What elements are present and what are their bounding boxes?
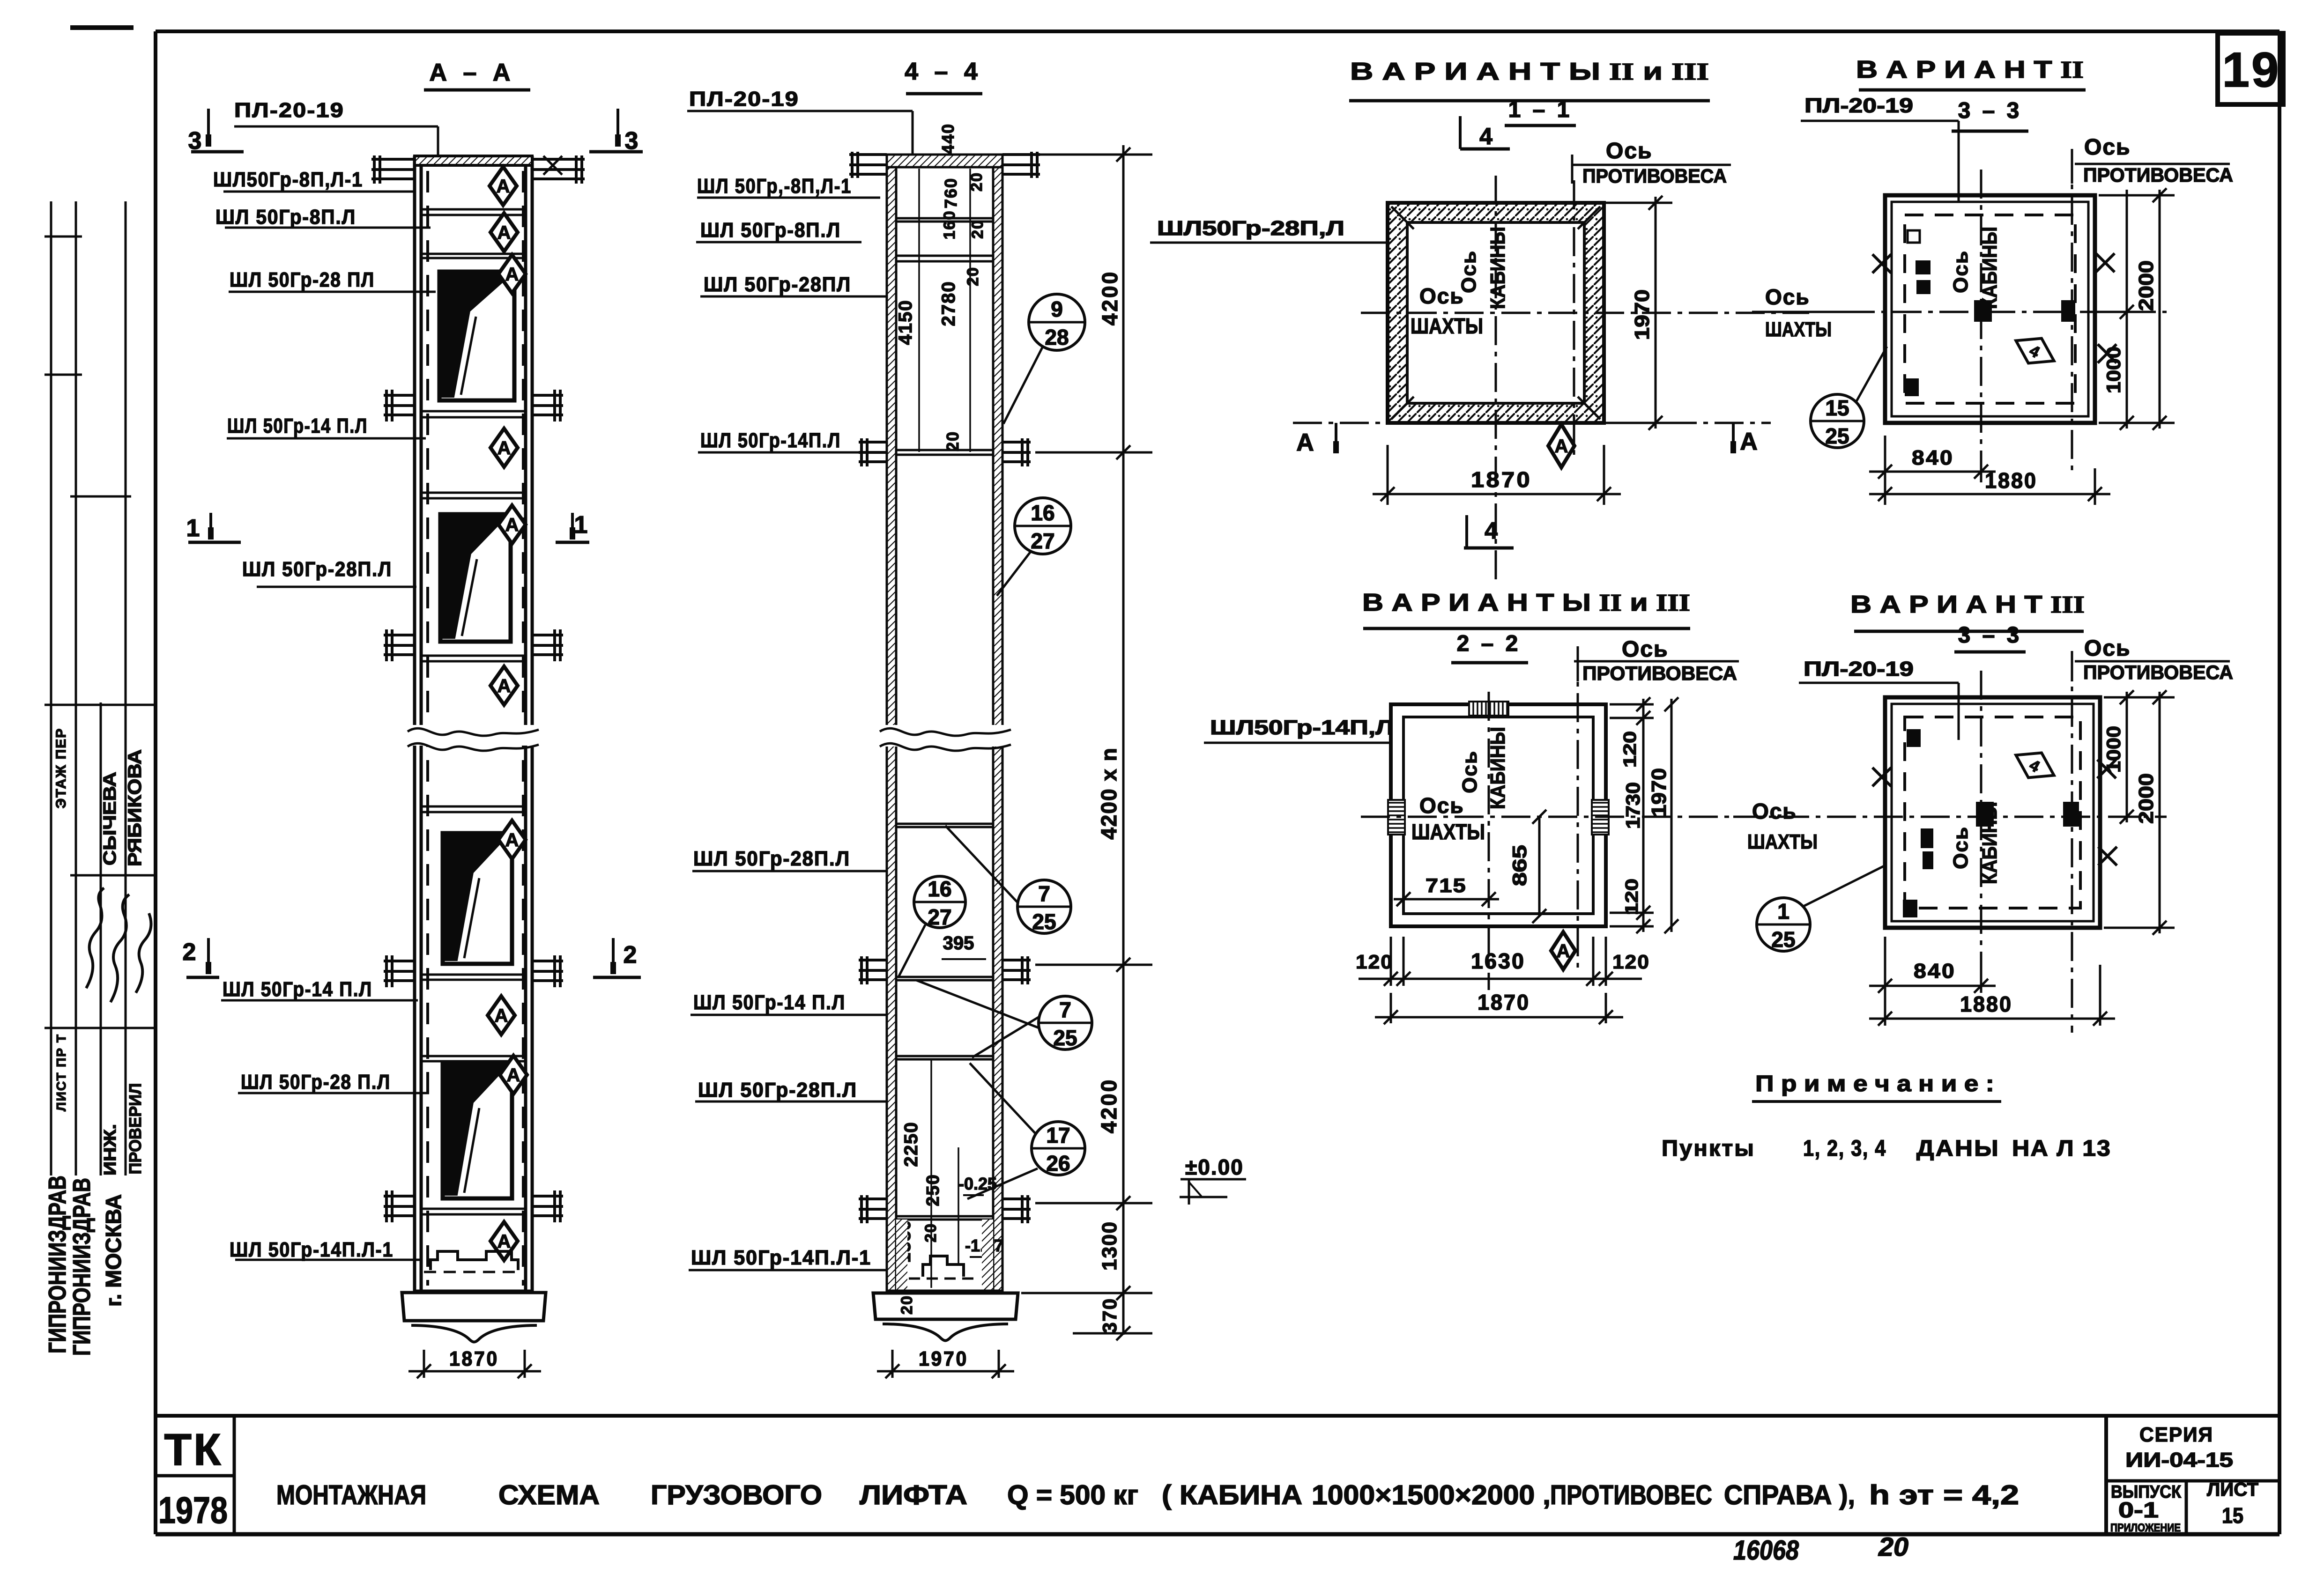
svg-text:4200: 4200 <box>1097 1078 1121 1133</box>
svg-text:А: А <box>497 1231 511 1252</box>
svg-text:ШЛ50Гр-14П,Л: ШЛ50Гр-14П,Л <box>1210 716 1394 739</box>
svg-text:1870: 1870 <box>1471 467 1532 492</box>
svg-text:Ось: Ось <box>1606 139 1653 163</box>
svg-text:±0.00: ±0.00 <box>1185 1155 1244 1179</box>
svg-text:1, 2, 3, 4: 1, 2, 3, 4 <box>1803 1136 1886 1161</box>
svg-text:ШЛ 50Гр-14П.Л-1: ШЛ 50Гр-14П.Л-1 <box>691 1246 871 1269</box>
svg-text:2250: 2250 <box>901 1122 921 1167</box>
svg-text:ГИПРОНИИЗДРАВ: ГИПРОНИИЗДРАВ <box>68 1178 96 1356</box>
svg-text:СЫЧЕВА: СЫЧЕВА <box>100 772 120 865</box>
svg-text:А: А <box>497 222 511 243</box>
svg-text:1: 1 <box>186 515 200 542</box>
svg-text:2: 2 <box>624 941 637 968</box>
svg-text:ШАХТЫ: ШАХТЫ <box>1747 830 1818 853</box>
svg-text:120: 120 <box>1612 951 1650 973</box>
svg-text:25: 25 <box>1032 909 1056 934</box>
svg-text:СЕРИЯ: СЕРИЯ <box>2139 1423 2213 1446</box>
svg-text:3: 3 <box>188 127 202 155</box>
svg-text:250: 250 <box>923 1174 943 1206</box>
svg-text:1300: 1300 <box>1098 1221 1121 1271</box>
svg-text:20: 20 <box>964 266 982 286</box>
svg-text:440: 440 <box>938 123 958 154</box>
svg-text:Ось: Ось <box>1949 826 1972 869</box>
svg-text:СПРАВА ),: СПРАВА ), <box>1724 1480 1855 1510</box>
svg-text:А: А <box>505 830 519 850</box>
svg-text:КАБИНЫ: КАБИНЫ <box>1486 727 1509 809</box>
svg-text:h эт = 4,2: h эт = 4,2 <box>1869 1480 2019 1510</box>
svg-text:Ось: Ось <box>1457 250 1480 293</box>
svg-text:ШЛ50Гр-28П,Л: ШЛ50Гр-28П,Л <box>1157 217 1344 240</box>
svg-text:В А Р И А Н Т III: В А Р И А Н Т III <box>1850 591 2085 618</box>
svg-text:ШАХТЫ: ШАХТЫ <box>1765 318 1832 341</box>
svg-text:А: А <box>1296 429 1314 456</box>
svg-text:120: 120 <box>1356 951 1393 973</box>
svg-text:ДАНЫ: ДАНЫ <box>1916 1136 2000 1161</box>
svg-text:ШЛ 50Гр-28 П.Л: ШЛ 50Гр-28 П.Л <box>241 1071 391 1094</box>
svg-text:1000×1500×2000 ,: 1000×1500×2000 , <box>1312 1480 1551 1510</box>
svg-text:2000: 2000 <box>2135 773 2158 824</box>
svg-text:120: 120 <box>1622 879 1642 915</box>
svg-text:1000: 1000 <box>2102 726 2124 773</box>
svg-text:19: 19 <box>2222 43 2281 97</box>
svg-text:Ось: Ось <box>1949 250 1972 293</box>
svg-text:1630: 1630 <box>1471 949 1525 973</box>
svg-text:г. МОСКВА: г. МОСКВА <box>101 1194 126 1307</box>
svg-text:ШАХТЫ: ШАХТЫ <box>1411 314 1483 338</box>
svg-text:ПРОТИВОВЕСА: ПРОТИВОВЕСА <box>1582 662 1737 684</box>
svg-text:В А Р И А Н Т Ы II и I: В А Р И А Н Т Ы II и III <box>1350 58 1709 85</box>
svg-text:9: 9 <box>1051 297 1063 321</box>
svg-text:1970: 1970 <box>1631 289 1654 340</box>
svg-text:Ось: Ось <box>2084 135 2131 160</box>
svg-text:120: 120 <box>1620 731 1640 768</box>
svg-text:ЭТАЖ ПЕР: ЭТАЖ ПЕР <box>53 728 69 808</box>
svg-text:ЛИФТА: ЛИФТА <box>860 1480 967 1510</box>
svg-text:ПЛ-20-19: ПЛ-20-19 <box>689 88 799 111</box>
svg-text:20: 20 <box>898 1295 916 1315</box>
svg-text:4 – 4: 4 – 4 <box>905 58 982 85</box>
svg-text:1870: 1870 <box>1478 990 1530 1014</box>
svg-text:17: 17 <box>1046 1123 1070 1147</box>
svg-text:1970: 1970 <box>919 1347 968 1370</box>
svg-text:ПРИЛОЖЕНИЕ: ПРИЛОЖЕНИЕ <box>2110 1522 2181 1534</box>
svg-text:1000: 1000 <box>2102 347 2124 393</box>
svg-text:ШЛ 50Гр-14 П.Л: ШЛ 50Гр-14 П.Л <box>693 991 846 1014</box>
svg-text:-0.25: -0.25 <box>958 1174 997 1193</box>
svg-text:1880: 1880 <box>1985 468 2037 493</box>
svg-text:( КАБИНА: ( КАБИНА <box>1162 1480 1302 1510</box>
svg-text:А – А: А – А <box>430 59 515 86</box>
svg-text:840: 840 <box>1912 446 1954 469</box>
svg-text:20: 20 <box>1878 1532 1908 1561</box>
svg-text:3: 3 <box>625 127 639 155</box>
svg-text:ШЛ 50Гр-28П.Л: ШЛ 50Гр-28П.Л <box>242 558 392 581</box>
svg-text:1730: 1730 <box>1622 782 1644 829</box>
svg-text:2780: 2780 <box>938 281 959 326</box>
svg-text:В А Р И А Н Т Ы II и II: В А Р И А Н Т Ы II и III <box>1362 589 1690 616</box>
svg-text:ШЛ 50Гр-14 П.Л: ШЛ 50Гр-14 П.Л <box>223 978 372 1001</box>
svg-text:Ось: Ось <box>1419 793 1464 818</box>
svg-text:1880: 1880 <box>1960 992 2012 1016</box>
svg-text:КАБИНЫ: КАБИНЫ <box>1486 227 1509 309</box>
svg-text:В А Р И А Н Т II: В А Р И А Н Т II <box>1856 56 2084 83</box>
svg-text:4: 4 <box>1485 517 1498 544</box>
svg-text:25: 25 <box>1053 1026 1077 1050</box>
svg-text:НА Л 13: НА Л 13 <box>2012 1136 2111 1161</box>
svg-text:Ось: Ось <box>1752 799 1797 823</box>
svg-text:ПЛ-20-19: ПЛ-20-19 <box>234 99 344 122</box>
svg-text:П р и м е ч а н и е :: П р и м е ч а н и е : <box>1755 1072 1994 1096</box>
svg-text:ГИПРОНИИЗДРАВ: ГИПРОНИИЗДРАВ <box>44 1175 71 1353</box>
svg-text:25: 25 <box>1771 927 1795 952</box>
svg-text:ШЛ 50Гр-14П.Л: ШЛ 50Гр-14П.Л <box>700 429 841 452</box>
svg-text:ШЛ 50Гр,-8П,Л-1: ШЛ 50Гр,-8П,Л-1 <box>697 175 852 198</box>
svg-text:ПРОТИВОВЕСА: ПРОТИВОВЕСА <box>2083 164 2233 186</box>
svg-text:КАБИНЫ: КАБИНЫ <box>1978 802 2001 884</box>
svg-text:370: 370 <box>1099 1298 1121 1333</box>
svg-text:395: 395 <box>943 933 974 954</box>
svg-text:А: А <box>495 1005 508 1026</box>
svg-text:Пункты: Пункты <box>1662 1136 1755 1161</box>
svg-text:1: 1 <box>574 511 588 539</box>
svg-text:ПРОТИВОВЕС: ПРОТИВОВЕС <box>1550 1480 1712 1510</box>
svg-text:ЛИСТ ПР Т: ЛИСТ ПР Т <box>54 1034 68 1111</box>
svg-text:А: А <box>505 264 519 285</box>
svg-text:20: 20 <box>922 1223 940 1242</box>
svg-text:МОНТАЖНАЯ: МОНТАЖНАЯ <box>276 1480 426 1510</box>
svg-text:ТК: ТК <box>164 1425 223 1475</box>
svg-text:26: 26 <box>1046 1151 1070 1175</box>
svg-text:1970: 1970 <box>1648 768 1671 817</box>
svg-text:760: 760 <box>941 177 960 208</box>
svg-text:ПЛ-20-19: ПЛ-20-19 <box>1804 94 1913 117</box>
svg-text:ИИ-04-15: ИИ-04-15 <box>2125 1449 2233 1471</box>
svg-text:ПЛ-20-19: ПЛ-20-19 <box>1804 658 1914 680</box>
svg-text:2 – 2: 2 – 2 <box>1457 631 1521 656</box>
svg-text:ИНЖ.: ИНЖ. <box>100 1124 119 1175</box>
svg-text:715: 715 <box>1426 874 1467 896</box>
svg-text:КАБИНЫ: КАБИНЫ <box>1978 227 2001 309</box>
svg-text:20: 20 <box>968 172 986 192</box>
svg-text:А: А <box>507 1065 520 1086</box>
svg-text:15: 15 <box>1825 396 1849 420</box>
svg-text:Ось: Ось <box>1622 637 1669 662</box>
svg-text:РЯБИКОВА: РЯБИКОВА <box>125 749 145 866</box>
svg-text:ШЛ 50Гр-28П.Л: ШЛ 50Гр-28П.Л <box>693 847 850 870</box>
svg-text:Q = 500 кг: Q = 500 кг <box>1007 1480 1138 1510</box>
svg-text:А: А <box>505 515 519 535</box>
svg-text:Ось: Ось <box>1765 285 1810 309</box>
svg-text:7: 7 <box>1038 881 1050 906</box>
svg-text:А: А <box>1557 941 1570 961</box>
svg-text:840: 840 <box>1914 960 1956 983</box>
svg-text:ШЛ 50Гр-28 ПЛ: ШЛ 50Гр-28 ПЛ <box>230 268 375 291</box>
svg-text:4200 x n: 4200 x n <box>1097 747 1121 840</box>
svg-text:А: А <box>497 438 511 458</box>
svg-text:4: 4 <box>1479 123 1492 149</box>
svg-text:3 – 3: 3 – 3 <box>1958 623 2022 648</box>
svg-text:20: 20 <box>969 219 987 239</box>
svg-text:4150: 4150 <box>895 300 916 345</box>
svg-text:7: 7 <box>1059 998 1071 1022</box>
svg-text:ШЛ 50Гр-28П.Л: ШЛ 50Гр-28П.Л <box>698 1079 857 1101</box>
svg-text:15: 15 <box>2222 1503 2243 1528</box>
svg-text:1 – 1: 1 – 1 <box>1508 97 1573 122</box>
svg-text:ШЛ 50Гр-14П.Л-1: ШЛ 50Гр-14П.Л-1 <box>230 1238 394 1261</box>
svg-text:2000: 2000 <box>2135 260 2158 311</box>
svg-text:4200: 4200 <box>1098 270 1122 325</box>
svg-text:1870: 1870 <box>449 1347 499 1370</box>
svg-text:0-1: 0-1 <box>2118 1498 2159 1522</box>
svg-text:865: 865 <box>1508 845 1530 886</box>
svg-text:СХЕМА: СХЕМА <box>498 1480 600 1510</box>
svg-text:А: А <box>1740 428 1758 455</box>
svg-text:3 – 3: 3 – 3 <box>1958 98 2022 123</box>
svg-text:А: А <box>497 676 511 696</box>
svg-text:27: 27 <box>1031 529 1054 553</box>
svg-text:А: А <box>1555 436 1568 457</box>
svg-text:ПРОТИВОВЕСА: ПРОТИВОВЕСА <box>2083 661 2233 683</box>
svg-text:ШАХТЫ: ШАХТЫ <box>1411 820 1485 844</box>
svg-text:А: А <box>497 176 510 197</box>
svg-text:25: 25 <box>1825 424 1849 448</box>
svg-text:ГРУЗОВОГО: ГРУЗОВОГО <box>651 1480 822 1510</box>
svg-text:ШЛ 50Гр-28ПЛ: ШЛ 50Гр-28ПЛ <box>704 273 851 296</box>
svg-text:1: 1 <box>1777 899 1789 924</box>
svg-text:ПРОТИВОВЕСА: ПРОТИВОВЕСА <box>1582 165 1727 187</box>
svg-text:16: 16 <box>928 877 951 901</box>
svg-text:2: 2 <box>183 939 196 966</box>
svg-text:ШЛ50Гр-8П,Л-1: ШЛ50Гр-8П,Л-1 <box>213 168 363 191</box>
svg-text:160: 160 <box>941 210 958 240</box>
svg-text:ШЛ 50Гр-14 П.Л: ШЛ 50Гр-14 П.Л <box>227 414 368 437</box>
svg-text:Ось: Ось <box>2084 636 2131 661</box>
svg-text:16068: 16068 <box>1733 1535 1799 1566</box>
svg-text:27: 27 <box>928 905 951 929</box>
svg-text:ПРОВЕРИЛ: ПРОВЕРИЛ <box>126 1083 145 1175</box>
svg-text:20: 20 <box>943 431 962 451</box>
svg-text:16: 16 <box>1031 501 1054 525</box>
svg-text:Ось: Ось <box>1458 750 1481 793</box>
svg-text:1978: 1978 <box>158 1489 228 1531</box>
svg-text:28: 28 <box>1045 325 1069 349</box>
svg-text:ШЛ 50Гр-8П.Л: ШЛ 50Гр-8П.Л <box>700 219 841 242</box>
svg-text:ЛИСТ: ЛИСТ <box>2207 1479 2258 1500</box>
svg-text:ШЛ 50Гр-8П.Л: ШЛ 50Гр-8П.Л <box>215 206 356 229</box>
